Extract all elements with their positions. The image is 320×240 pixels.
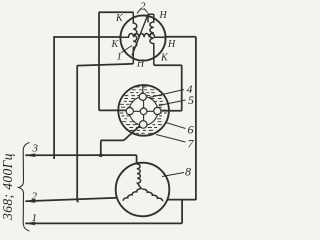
- wire net 2 horizontal: [25, 198, 117, 202]
- leader label 7: [156, 135, 186, 143]
- leader ticks label 2: [137, 9, 148, 14]
- junction tick at node 2: [77, 199, 78, 203]
- svg-text:7: 7: [188, 136, 195, 150]
- brush contact 4 (top): [139, 93, 146, 100]
- wire vertical left x99: [98, 12, 100, 110]
- leader label 8: [162, 173, 184, 177]
- brush contact right (5): [154, 107, 161, 114]
- winding stator left arm: [123, 189, 141, 201]
- wire stator right terminal y200: [168, 199, 196, 201]
- hatching of body: [120, 87, 167, 133]
- leader label 6: [166, 123, 186, 129]
- svg-text:368; 400Гц: 368; 400Гц: [0, 153, 15, 221]
- rotor with commutator (top machine) circle: [120, 15, 165, 60]
- brush contact bottom: [139, 121, 147, 129]
- wire net 3 drop to stator top terminal: [136, 155, 138, 164]
- arrow output 2: [25, 199, 36, 203]
- wire net 1 bottom horizontal: [25, 222, 182, 224]
- svg-text:Н: Н: [136, 59, 145, 70]
- hub: [140, 108, 147, 115]
- svg-text:2: 2: [32, 191, 38, 203]
- svg-text:Н: Н: [167, 39, 176, 50]
- winding middle coil (rotor): [121, 34, 166, 38]
- wire branch to bottom brush: riser: [100, 140, 102, 155]
- wire to right brush: [162, 110, 182, 112]
- wire vertical x182 (net 1 riser): [181, 200, 183, 224]
- brush stub 2a: [148, 14, 154, 22]
- wire branch horizontal y139: [101, 139, 124, 141]
- wire Н(mid-right) horizontal y37: [165, 36, 196, 38]
- winding stator right arm: [142, 189, 162, 201]
- leader label 4: [149, 90, 184, 98]
- wire to left brush: [99, 109, 126, 111]
- spokes hub to brushes: [133, 100, 154, 121]
- wire net К(top-left) to left brush: top horizontal: [99, 11, 134, 13]
- stator (bottom machine) circle: [116, 163, 170, 217]
- svg-text:3: 3: [32, 143, 39, 155]
- svg-text:1: 1: [117, 51, 123, 63]
- stub top brush to body edge: [142, 85, 144, 93]
- arrow output 3: [25, 153, 36, 157]
- wire vertical x181.7: [181, 65, 183, 111]
- svg-text:2: 2: [140, 1, 146, 13]
- brush axis diagonal: [132, 14, 148, 55]
- slip-ring / brush unit (middle machine) hatched body: [118, 85, 169, 136]
- leader label 5: [159, 100, 186, 106]
- svg-text:1: 1: [32, 212, 38, 224]
- wire right vertical x196: [195, 37, 197, 200]
- wire diagonal to bottom brush: [124, 126, 140, 141]
- slip ring circle: [129, 97, 158, 126]
- arrow output 1: [25, 221, 36, 225]
- wire Н(bottom stub) to left: horizontal y64.5: [77, 64, 133, 66]
- svg-text:5: 5: [188, 93, 194, 107]
- leader label 1: [122, 46, 133, 53]
- brush contact left: [126, 108, 133, 115]
- wire К(mid-left) horizontal y37: [53, 36, 120, 38]
- svg-text:6: 6: [188, 123, 194, 137]
- junction dot node 3: [99, 154, 103, 158]
- svg-text:8: 8: [185, 165, 191, 179]
- wire К(bottom-right stub) right segment y64.5: [154, 64, 182, 66]
- winding right coil (rotor): [150, 14, 154, 65]
- wire vertical x77: [76, 65, 78, 201]
- winding stator top arm: [137, 164, 142, 189]
- brace: [19, 143, 30, 232]
- wire net 3 horizontal: [25, 154, 136, 156]
- svg-text:Н: Н: [159, 10, 168, 21]
- winding left coil (rotor): [133, 12, 137, 64]
- wire vertical x55: [53, 36, 55, 159]
